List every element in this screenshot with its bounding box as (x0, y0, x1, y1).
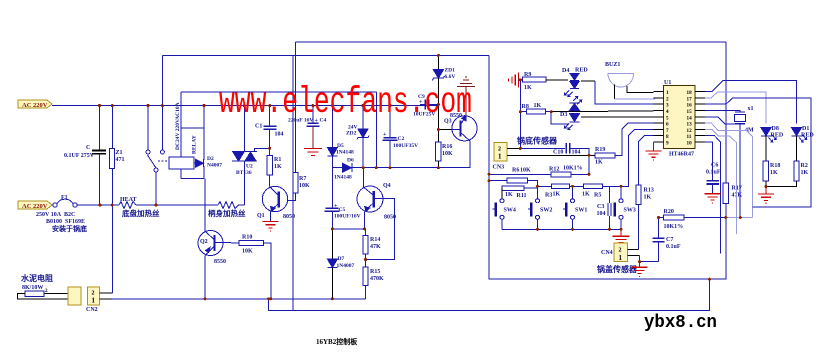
svg-text:HT46R47: HT46R47 (669, 152, 694, 158)
svg-text:14: 14 (687, 115, 693, 121)
wire pin18 to D1 (top route y80.3) (705, 80, 797, 123)
svg-text:R6: R6 (512, 168, 519, 174)
node AC220V (bottom input label) (18, 201, 52, 210)
svg-text:DC24V 220VAC10A: DC24V 220VAC10A (175, 102, 181, 150)
triac U2 BT136 (232, 106, 270, 205)
wire rail y167.7 (D6 line) (332, 142, 470, 168)
svg-text:SW1: SW1 (575, 208, 587, 214)
zener ZD1 6.6V (432, 55, 455, 104)
LED D4 RED (dual) (546, 68, 588, 97)
svg-text:470K: 470K (370, 276, 384, 282)
earth (chassis above Q3, dark red) (457, 77, 475, 116)
wire fuse to heater rail y205 (77, 204, 119, 206)
svg-text:ybx8.cn: ybx8.cn (644, 313, 717, 333)
connector CN3 (493, 142, 508, 170)
svg-text:R13: R13 (644, 188, 654, 194)
svg-text:0.1uF: 0.1uF (666, 244, 681, 250)
crystal x1 (705, 106, 754, 124)
svg-text:R10: R10 (242, 235, 252, 241)
svg-text:D7: D7 (338, 256, 345, 262)
svg-text:R2: R2 (801, 163, 808, 169)
svg-text:AC 220V: AC 220V (22, 102, 48, 109)
node AC220V (top input label) (18, 100, 52, 109)
svg-text:CN3: CN3 (493, 165, 505, 171)
resistor Z1 471 (110, 106, 125, 205)
transistor Q2 8550 (198, 178, 239, 298)
ground (below CN4 pin1, red) (632, 262, 648, 277)
svg-text:水泥电阻: 水泥电阻 (20, 273, 53, 283)
switch SW1 (563, 186, 587, 229)
svg-text:N4007: N4007 (207, 163, 222, 169)
chip U1 pin stubs and numbers (653, 90, 704, 147)
svg-text:10K1%: 10K1% (664, 224, 684, 230)
resistor R11 1K (502, 186, 538, 199)
svg-text:10K: 10K (520, 168, 531, 174)
svg-text:AC 220V: AC 220V (22, 203, 48, 210)
wire top box rail y42 (296, 41, 726, 43)
svg-text:1: 1 (666, 90, 669, 96)
resistor R3 1K (545, 184, 584, 199)
svg-text:CN4: CN4 (601, 250, 613, 256)
svg-text:1K: 1K (505, 192, 513, 198)
svg-text:104: 104 (275, 132, 284, 138)
svg-text:RED: RED (801, 133, 814, 139)
svg-text:8: 8 (666, 134, 669, 140)
svg-text:U1: U1 (664, 80, 671, 86)
svg-text:C3: C3 (597, 204, 604, 210)
fuse F1 (36, 195, 87, 233)
relay RELAY DC24V coil box (169, 92, 204, 178)
resistor R10 10K (239, 235, 271, 299)
svg-text:R18: R18 (770, 163, 780, 169)
svg-text:U2: U2 (246, 164, 253, 170)
wire sensor pullup column x520.4 (519, 80, 521, 149)
resistor R8 1K (520, 103, 545, 114)
svg-text:0.1UF 275V: 0.1UF 275V (64, 153, 95, 159)
wire R7 feed x295.5 from y42 (295, 42, 297, 173)
svg-text:1N4148: 1N4148 (336, 150, 354, 156)
svg-text:11: 11 (687, 134, 692, 140)
capacitor C2 100UF35V (383, 106, 419, 168)
svg-text:2: 2 (666, 96, 669, 102)
buzzer BUZ1 (605, 62, 653, 99)
svg-text:C2: C2 (398, 136, 405, 142)
svg-text:SW3: SW3 (624, 208, 636, 214)
svg-text:C7: C7 (666, 237, 673, 243)
switch SW4 (493, 199, 516, 230)
LED D8 RED (761, 126, 784, 161)
svg-text:C10: C10 (553, 150, 563, 156)
wire AC line L (y105.6 rail from label to C9) (52, 105, 438, 107)
svg-text:100UF35V: 100UF35V (393, 143, 418, 149)
svg-text:D5: D5 (337, 143, 344, 149)
svg-text:C: C (86, 145, 90, 151)
svg-text:HEAT: HEAT (120, 197, 137, 203)
wire neutral/fuse line (y205) (52, 204, 54, 206)
svg-text:D3: D3 (560, 112, 567, 118)
svg-text:Z1: Z1 (116, 150, 123, 156)
wire pin11 (blue drop) (705, 136, 721, 254)
svg-text:RED: RED (575, 68, 588, 74)
resistor R6 10K (507, 168, 538, 187)
wire switch bottom rail y229.3 (502, 228, 621, 230)
wire CN4 pin1 to ground/C7 (628, 255, 640, 257)
wire 24V rail y92 (relay to Q4 emitter) (181, 91, 376, 93)
svg-text:锅底传感器: 锅底传感器 (516, 136, 558, 146)
svg-text:R1: R1 (274, 157, 281, 163)
wire pin10 to C6 (705, 142, 713, 181)
svg-text:18: 18 (687, 90, 693, 96)
switch SW3 (615, 186, 636, 229)
resistor R19 1K (595, 123, 654, 165)
capacitor C3 104 (597, 186, 612, 229)
svg-text:10: 10 (687, 141, 693, 147)
svg-text:10K: 10K (442, 151, 453, 157)
wire ZD1/C9 column to Q3 base and R16 (437, 105, 439, 142)
resistor R18 1K (763, 161, 780, 187)
svg-text:1K: 1K (644, 195, 652, 201)
svg-text:1K: 1K (274, 164, 282, 170)
svg-text:R16: R16 (442, 144, 452, 150)
svg-text:SW2: SW2 (540, 208, 552, 214)
svg-text:1: 1 (92, 297, 96, 305)
svg-text:R15: R15 (370, 269, 380, 275)
svg-text:10K1%: 10K1% (563, 166, 583, 172)
svg-text:10K: 10K (299, 183, 310, 189)
svg-text:CN2: CN2 (86, 307, 98, 313)
svg-text:1K: 1K (534, 103, 542, 109)
svg-text:底盘加热丝: 底盘加热丝 (122, 208, 160, 218)
svg-text:锅盖传感器: 锅盖传感器 (596, 264, 638, 274)
svg-text:C6: C6 (711, 163, 718, 169)
svg-text:BT136: BT136 (236, 170, 252, 176)
svg-text:1K: 1K (582, 192, 590, 198)
capacitor C7 0.1uF (653, 218, 681, 262)
svg-text:471: 471 (116, 157, 125, 163)
heater handle (wavy) (208, 202, 246, 219)
connector CN4 (601, 243, 628, 262)
ground (below R18/R2, red) (758, 187, 774, 204)
wire left long vertical x293.2 (55.4 to 310.5) (292, 55, 294, 310)
resistor R17 47K (on right frame) (723, 42, 742, 218)
svg-text:8050: 8050 (283, 214, 295, 220)
svg-text:D4: D4 (562, 68, 569, 74)
power symbol (red bars, left of R9) (509, 73, 519, 88)
svg-text:1N4007: 1N4007 (337, 263, 355, 269)
relay contact (146, 55, 169, 205)
svg-text:1: 1 (619, 254, 623, 262)
svg-text:D6: D6 (347, 158, 354, 164)
svg-text:Q1: Q1 (257, 213, 265, 219)
resistor R5 1K (582, 184, 621, 199)
svg-text:+: + (383, 132, 387, 138)
svg-text:柄身加热丝: 柄身加热丝 (208, 208, 246, 218)
wire heater1 to heater2 y205 (136, 204, 218, 206)
svg-text:10K: 10K (242, 249, 253, 255)
svg-text:1: 1 (498, 153, 502, 161)
svg-text:104: 104 (597, 211, 606, 217)
svg-text:R5: R5 (594, 193, 601, 199)
wire 24V drop x376.3 (y92 to y167.7) (375, 92, 377, 168)
ground (chip pin9, red) (645, 142, 661, 160)
svg-text:9: 9 (666, 141, 669, 147)
svg-text:Q4: Q4 (383, 183, 391, 189)
svg-text:4: 4 (666, 109, 669, 115)
wire pin12 (lavender drop) (705, 129, 737, 234)
wire lavender riser to chip (pin13 route) (653, 122, 663, 124)
resistor R14 47K (363, 229, 381, 254)
svg-text:100UF/16V: 100UF/16V (334, 214, 361, 220)
wire D3 lower to pin5 (581, 116, 653, 118)
svg-text:16YB2控制板: 16YB2控制板 (316, 337, 358, 346)
cement resistor 8K/10W (18, 273, 69, 299)
svg-text:RELAY: RELAY (192, 135, 198, 154)
ground (below Q1, red) (262, 222, 278, 232)
svg-text:www.elecfans.com: www.elecfans.com (219, 82, 472, 124)
svg-text:5: 5 (666, 115, 669, 121)
connector block (plain) (68, 287, 81, 305)
svg-text:16: 16 (687, 103, 693, 109)
capacitor C4 220uF16V electrolytic (288, 106, 326, 148)
svg-text:104: 104 (572, 150, 581, 156)
svg-text:1K: 1K (770, 170, 778, 176)
resistor R1 1K (267, 148, 282, 186)
svg-text:BUZ1: BUZ1 (605, 62, 620, 68)
diode D2 N4007 (194, 156, 222, 169)
svg-text:R12: R12 (549, 167, 559, 173)
svg-text:x1: x1 (748, 106, 754, 112)
svg-text:6: 6 (666, 122, 669, 128)
svg-text:47K: 47K (370, 244, 381, 250)
chip U1 HT46R47 (664, 80, 696, 158)
capacitor C 0.1UF275V (64, 106, 106, 205)
svg-text:D8: D8 (772, 126, 779, 132)
svg-text:250V 10A B2C: 250V 10A B2C (36, 212, 75, 218)
ground (below C4, red) (304, 149, 322, 156)
resistor R16 10K (436, 142, 453, 168)
heater HEAT (bottom plate) (119, 197, 160, 218)
wire CN3 pin1 line (507, 154, 595, 156)
wire pin17 to D8 (lavender) (705, 92, 766, 124)
resistor R15 470K (363, 254, 384, 299)
svg-text:RED: RED (771, 133, 784, 139)
svg-text:12: 12 (687, 128, 693, 134)
svg-text:R3: R3 (545, 193, 552, 199)
svg-text:R7: R7 (299, 176, 306, 182)
diode D5 1N4148 (327, 106, 354, 168)
wire pin14 to crystal bottom (705, 117, 740, 124)
resistor R9 1K (519, 72, 547, 91)
svg-text:D1: D1 (802, 126, 809, 132)
svg-text:+: + (334, 204, 338, 210)
svg-text:8550: 8550 (214, 259, 226, 265)
svg-text:0.1uF: 0.1uF (706, 170, 721, 176)
transistor Q1 8050 (257, 186, 295, 221)
transistor Q3 8550 (444, 113, 477, 142)
svg-text:C1: C1 (255, 124, 262, 130)
wire heater2 to triac MT1 (239, 204, 245, 206)
svg-text:R14: R14 (370, 237, 380, 243)
svg-text:1N4148: 1N4148 (334, 175, 352, 181)
capacitor C1 104 (255, 106, 284, 149)
svg-text:17: 17 (687, 96, 693, 102)
svg-text:3: 3 (666, 103, 669, 109)
wire switch rail y186.3 (538, 185, 552, 187)
diode D6 1N4148 (334, 158, 354, 181)
wire CN2 pin1 bottom rail y298.8 (100, 298, 112, 300)
svg-text:C5: C5 (339, 207, 346, 213)
wire bottom return rail y310.5 (269, 279, 710, 310)
wire pin16 right edge loop (705, 98, 811, 207)
svg-text:15: 15 (687, 109, 693, 115)
svg-text:47K: 47K (732, 193, 743, 199)
wire VDD drop x589 to R12 rail (588, 155, 590, 174)
wire BUZ1 left leg to pin2 (lavender) (615, 98, 664, 99)
svg-text:8050: 8050 (384, 215, 396, 221)
wire matrix rail to chip pin7 (621, 129, 653, 186)
LED D3 (dual bicolor) (551, 97, 653, 130)
svg-text:R20: R20 (664, 209, 674, 215)
svg-text:6.6V: 6.6V (445, 74, 456, 80)
svg-text:R8: R8 (522, 104, 529, 110)
svg-text:D2: D2 (207, 156, 214, 162)
wire CN3 pin2 line (507, 147, 520, 149)
svg-text:F1: F1 (61, 195, 68, 201)
ground (below SW3, red) (613, 229, 630, 242)
zener ZD2 24V (346, 106, 369, 168)
wire CN4 pin2 to R13 (628, 248, 639, 250)
capacitor C9 10UF25V (413, 94, 438, 118)
svg-text:R9: R9 (524, 72, 531, 78)
ground (below C6, red) (705, 194, 721, 203)
svg-text:R11: R11 (517, 193, 527, 199)
wire CN2 pin2 to heater line (100, 292, 113, 294)
resistor R20 10K1% (659, 209, 753, 230)
svg-text:Q2: Q2 (200, 239, 208, 245)
wire rail y55.4 (162, 54, 489, 56)
svg-text:1K: 1K (801, 170, 809, 176)
svg-text:13: 13 (687, 122, 693, 128)
svg-text:ZD2: ZD2 (346, 131, 357, 137)
svg-text:R19: R19 (595, 147, 605, 153)
connector CN2 (86, 287, 100, 313)
svg-text:1K: 1K (595, 160, 603, 166)
svg-text:SW4: SW4 (504, 208, 516, 214)
capacitor C5 100UF/16V (324, 168, 360, 229)
wire R6 rail y180.7 (489, 180, 507, 182)
capacitor C6 0.1uF (706, 163, 721, 194)
wire R8 elbow to D3 bottom (546, 112, 568, 124)
svg-text:安装于锅底: 安装于锅底 (52, 224, 87, 233)
svg-text:ZD1: ZD1 (445, 68, 456, 74)
wire C5/Q4 junction rail y228.9 (332, 228, 365, 230)
svg-text:8K/10W: 8K/10W (22, 285, 43, 291)
wire crystal column to rail (739, 124, 741, 218)
switch SW2 (528, 186, 552, 229)
resistor R2 1K (766, 161, 809, 187)
svg-text:2: 2 (619, 248, 622, 254)
resistor R12 10K1% (549, 166, 589, 177)
diode D7 1N4007 (327, 229, 354, 299)
svg-text:1K: 1K (524, 85, 532, 91)
resistor R13 1K (636, 136, 654, 205)
resistor R7 10K (293, 173, 310, 201)
big box: VDD frame (x489 left edge, bottom, right edge via R17) (489, 55, 726, 279)
svg-text:1K: 1K (553, 192, 561, 198)
LED D1 RED (792, 126, 815, 161)
transistor Q4 8050 (357, 168, 396, 260)
wire D4 to pin3 elbow (581, 80, 595, 82)
wire matrix rail y174.3 (489, 173, 551, 175)
capacitor C10 104 (553, 143, 589, 155)
svg-text:7: 7 (666, 128, 669, 134)
